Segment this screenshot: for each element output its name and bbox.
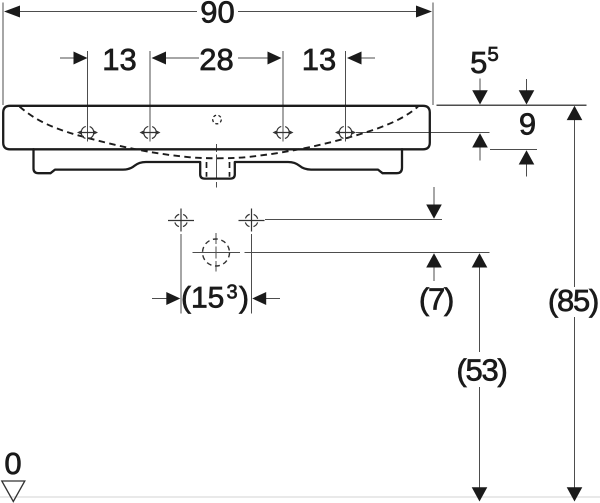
- svg-text:): ): [239, 282, 249, 315]
- svg-text:3: 3: [227, 282, 238, 304]
- svg-text:(85): (85): [548, 283, 598, 318]
- svg-text:(7): (7): [419, 282, 453, 317]
- svg-text:(53): (53): [456, 353, 506, 388]
- svg-text:13: 13: [102, 42, 136, 77]
- svg-text:13: 13: [302, 42, 336, 77]
- svg-text:90: 90: [200, 0, 234, 30]
- svg-text:55: 55: [470, 43, 499, 80]
- svg-text:9: 9: [519, 107, 536, 142]
- svg-text:0: 0: [4, 446, 21, 481]
- svg-text:28: 28: [199, 42, 233, 77]
- svg-text:(15: (15: [181, 282, 224, 315]
